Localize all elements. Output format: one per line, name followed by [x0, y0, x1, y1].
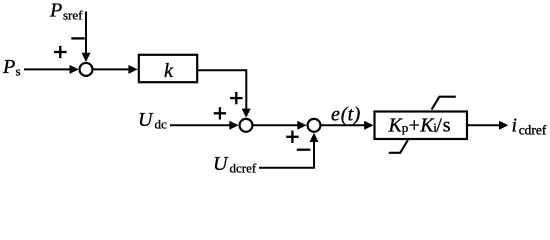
- svg-text:s: s: [16, 64, 21, 79]
- svg-text:s: s: [443, 114, 451, 136]
- svg-text:P: P: [2, 56, 15, 78]
- svg-text:dcref: dcref: [230, 161, 257, 176]
- svg-text:U: U: [213, 153, 229, 175]
- svg-text:i: i: [512, 114, 518, 136]
- svg-text:+: +: [409, 114, 420, 136]
- svg-text:cdref: cdref: [519, 122, 547, 137]
- svg-text:sref: sref: [63, 8, 83, 23]
- svg-text:): ): [353, 104, 361, 126]
- svg-text:p: p: [402, 120, 409, 135]
- svg-text:k: k: [164, 60, 174, 82]
- svg-text:/: /: [436, 114, 442, 136]
- svg-text:dc: dc: [155, 116, 168, 131]
- svg-text:e: e: [331, 104, 340, 126]
- svg-text:U: U: [138, 109, 154, 131]
- svg-text:P: P: [49, 0, 62, 22]
